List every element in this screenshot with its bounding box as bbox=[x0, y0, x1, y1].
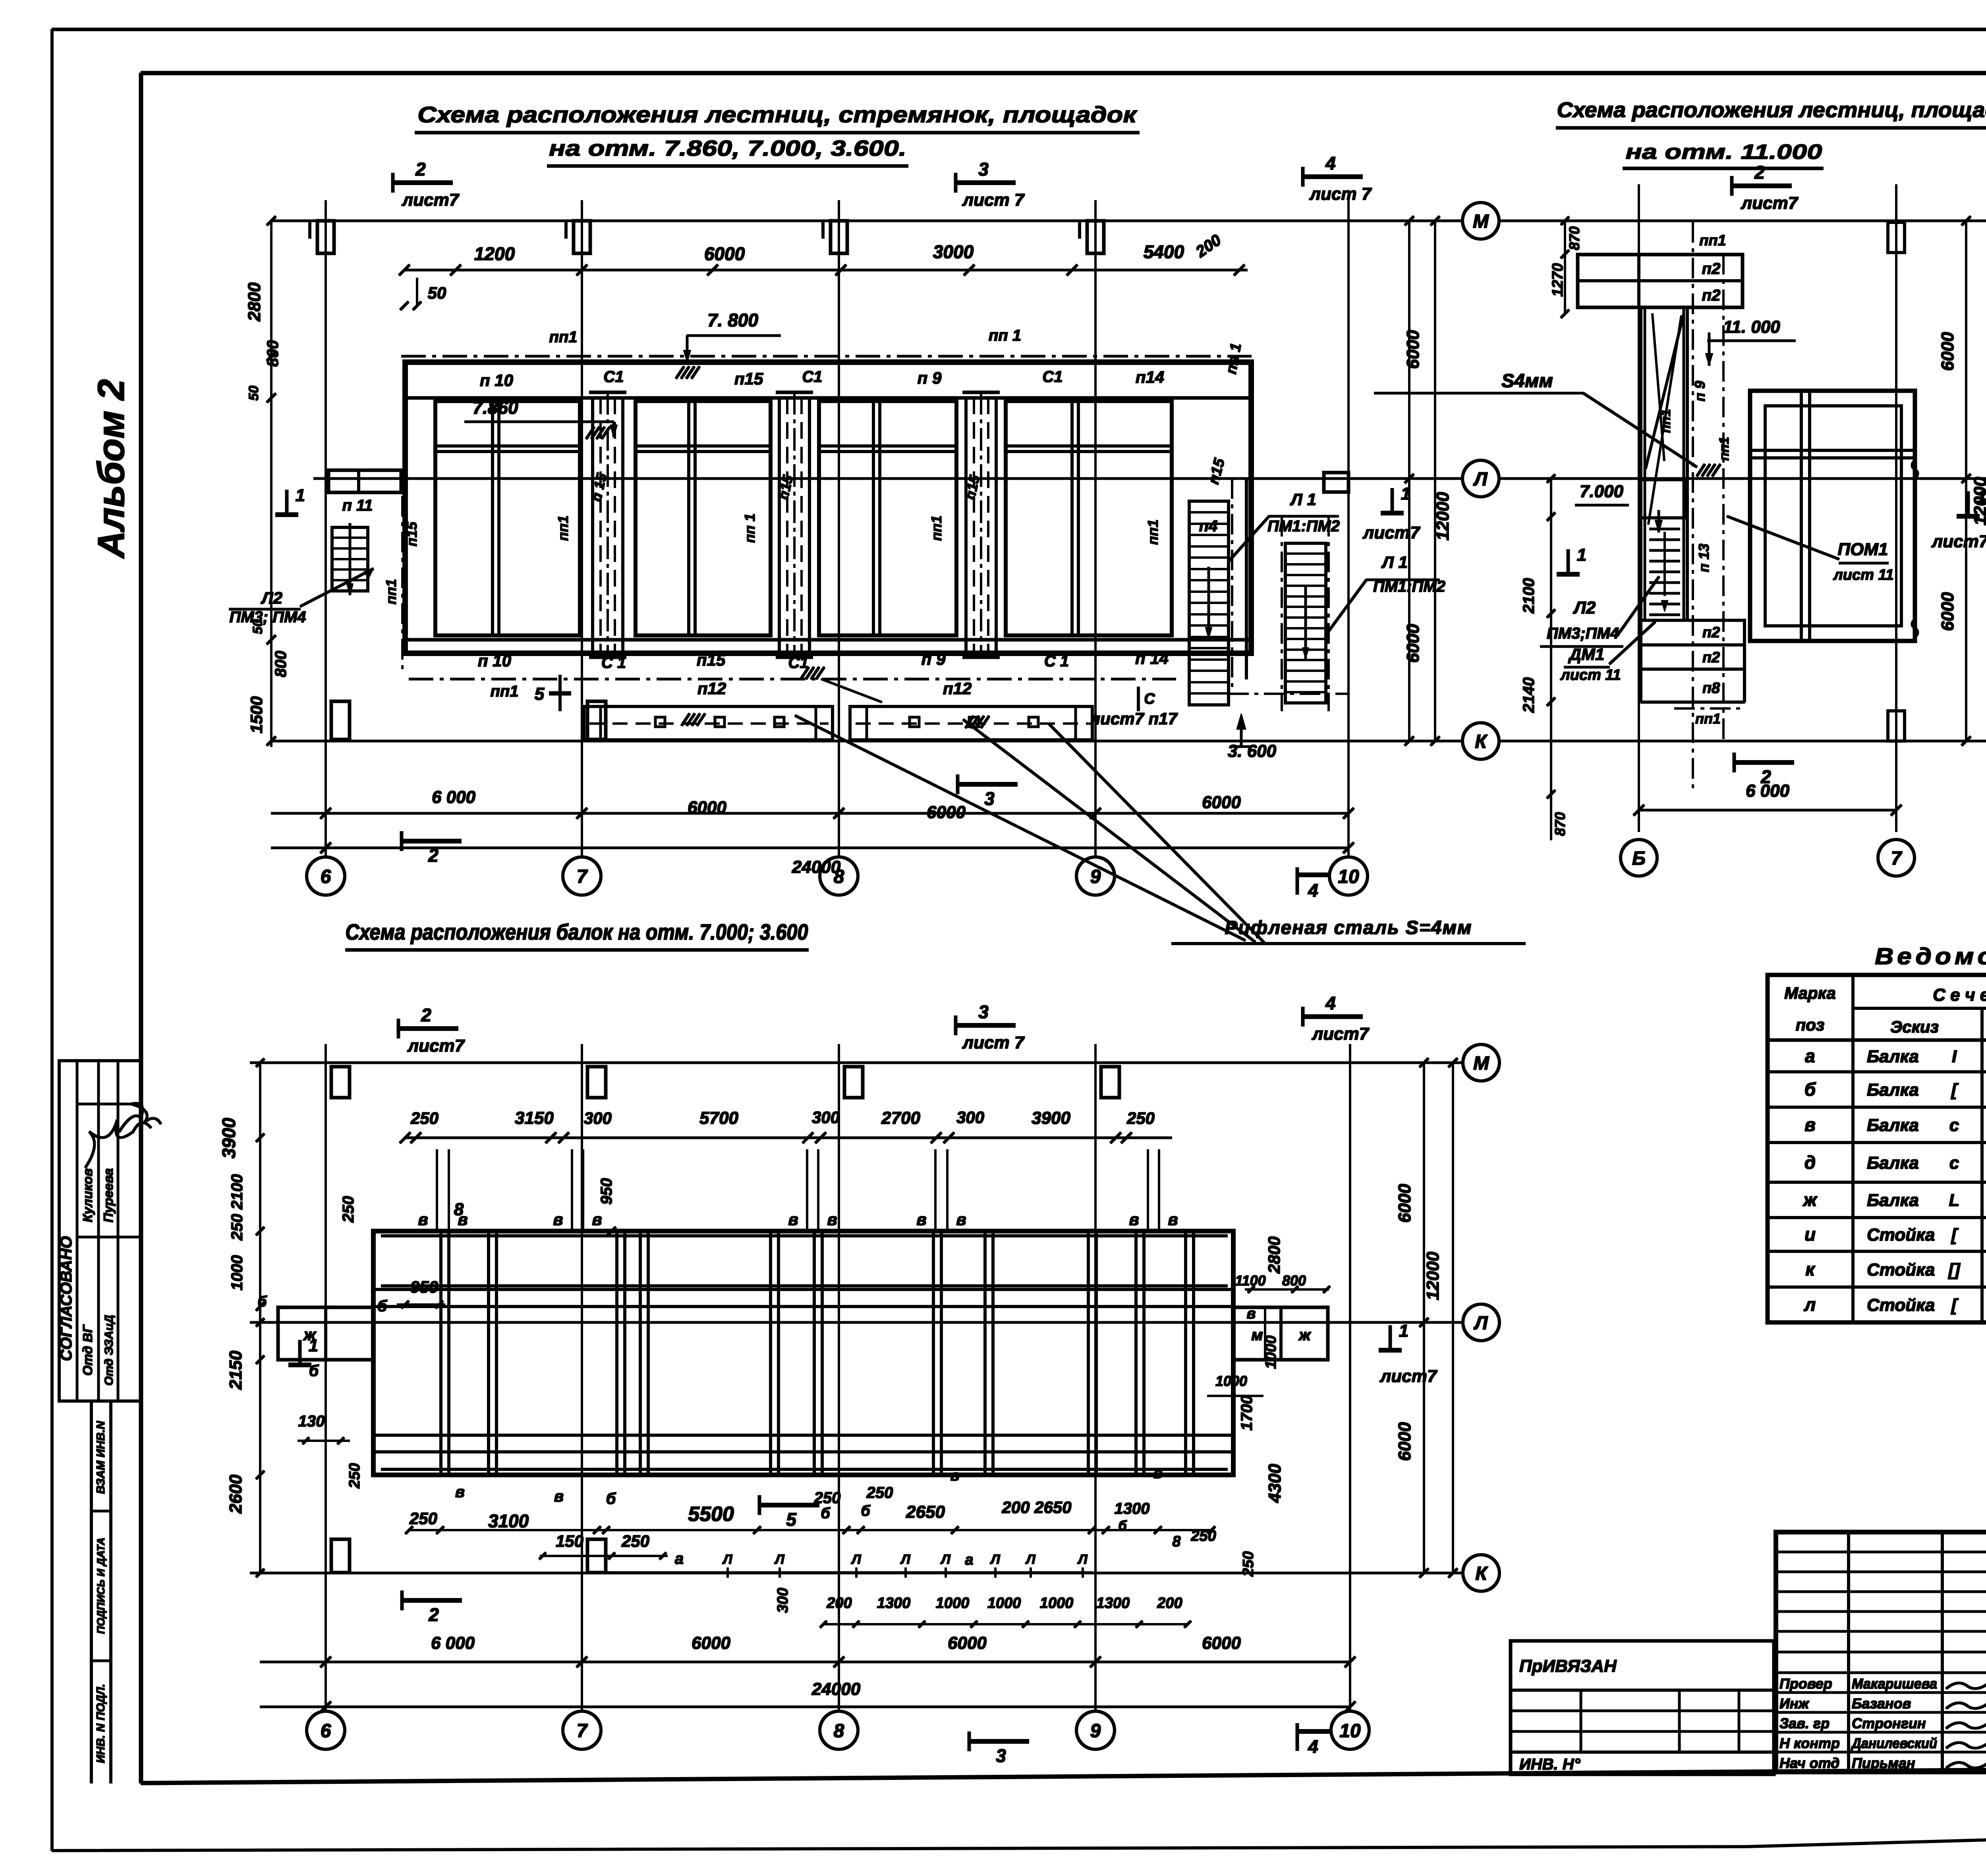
shaft ladder rungs bbox=[1650, 528, 1680, 530]
svg-text:3150: 3150 bbox=[515, 1108, 554, 1128]
svg-text:6000: 6000 bbox=[1395, 1422, 1414, 1461]
elements table frame bbox=[1768, 975, 1986, 1322]
svg-text:пп1: пп1 bbox=[928, 515, 945, 541]
svg-text:б: б bbox=[1804, 1079, 1816, 1100]
svg-text:9: 9 bbox=[1090, 866, 1101, 887]
section mark 4 bbox=[1302, 167, 1304, 186]
svg-text:7: 7 bbox=[1891, 848, 1903, 869]
section mark 2 bbox=[392, 173, 394, 192]
approval stamp box bbox=[59, 1061, 141, 1401]
section mark 4 bbox=[1296, 868, 1299, 894]
svg-text:б: б bbox=[606, 1490, 616, 1507]
svg-text:С 1: С 1 bbox=[1044, 652, 1069, 670]
svg-text:6000: 6000 bbox=[704, 243, 745, 264]
scheme 4 left dims bbox=[259, 1063, 261, 1573]
scheme 2 top stair boxes bbox=[1578, 255, 1743, 307]
svg-text:в: в bbox=[916, 1210, 926, 1229]
scheme 4 top dim chain bbox=[405, 1137, 1172, 1139]
svg-text:1300: 1300 bbox=[1096, 1595, 1130, 1612]
svg-text:ИНВ. Н°: ИНВ. Н° bbox=[1519, 1756, 1581, 1773]
svg-text:250: 250 bbox=[340, 1196, 357, 1223]
svg-text:Макаришева: Макаришева bbox=[1852, 1675, 1937, 1692]
grid column lines scheme 1 bbox=[325, 201, 326, 857]
svg-text:п2: п2 bbox=[1702, 287, 1721, 304]
svg-text:3. 600: 3. 600 bbox=[1228, 741, 1277, 761]
svg-text:Л: Л bbox=[850, 1552, 861, 1567]
svg-text:в: в bbox=[1129, 1210, 1139, 1229]
svg-text:а: а bbox=[965, 1552, 973, 1568]
svg-text:2: 2 bbox=[421, 1005, 431, 1025]
svg-text:Л: Л bbox=[774, 1552, 784, 1567]
svg-text:250: 250 bbox=[1126, 1109, 1155, 1127]
paper outer border bottom bbox=[52, 1824, 1986, 1851]
svg-text:в: в bbox=[1168, 1210, 1178, 1229]
svg-text:лист 7: лист 7 bbox=[962, 1033, 1025, 1052]
svg-text:150: 150 bbox=[556, 1532, 583, 1550]
svg-text:6000: 6000 bbox=[1202, 1633, 1241, 1653]
svg-text:S4мм: S4мм bbox=[1501, 371, 1553, 392]
ladder P4 bbox=[1189, 501, 1229, 705]
svg-text:250: 250 bbox=[621, 1532, 649, 1550]
svg-text:Балка: Балка bbox=[1867, 1047, 1919, 1066]
platform box at L axis bbox=[1640, 480, 1686, 518]
svg-text:С1: С1 bbox=[1042, 368, 1063, 386]
svg-text:6 000: 6 000 bbox=[431, 1633, 475, 1653]
svg-text:4: 4 bbox=[1308, 880, 1318, 901]
svg-text:4: 4 bbox=[1325, 993, 1336, 1013]
svg-text:Стронгин: Стронгин bbox=[1852, 1715, 1926, 1731]
svg-text:б: б bbox=[821, 1505, 831, 1522]
svg-text:12000: 12000 bbox=[1423, 1251, 1443, 1300]
col10 column mark at A axis bbox=[1324, 473, 1348, 492]
svg-text:п2: п2 bbox=[1702, 624, 1720, 641]
section mark 3 bbox=[954, 173, 957, 192]
svg-text:ж: ж bbox=[1802, 1189, 1818, 1210]
section mark 1 bbox=[1389, 1326, 1392, 1351]
svg-text:а: а bbox=[675, 1550, 684, 1567]
svg-text:Л: Л bbox=[900, 1552, 910, 1567]
svg-text:Б: Б bbox=[1632, 848, 1646, 869]
section mark 5 bbox=[758, 1496, 761, 1515]
svg-text:ПОДПИСЬ И ДАТА: ПОДПИСЬ И ДАТА bbox=[95, 1538, 107, 1634]
hatch with leader on bottom wall bbox=[801, 667, 824, 679]
svg-text:Куликов: Куликов bbox=[80, 1168, 95, 1222]
svg-text:6000: 6000 bbox=[927, 803, 966, 822]
column marks on axis M bbox=[317, 221, 334, 253]
bottom dim line 24000 bbox=[271, 847, 1348, 849]
svg-text:Л: Л bbox=[1077, 1552, 1088, 1567]
dashed vertical strips (ladder channels) bbox=[591, 398, 594, 651]
svg-text:4300: 4300 bbox=[1265, 1464, 1285, 1503]
section mark 4 bbox=[1302, 1007, 1304, 1026]
svg-text:в: в bbox=[827, 1210, 837, 1229]
svg-text:10: 10 bbox=[1339, 1720, 1361, 1741]
svg-text:Базанов: Базанов bbox=[1852, 1695, 1911, 1712]
svg-text:Пирьман: Пирьман bbox=[1852, 1755, 1915, 1771]
svg-text:ДМ1: ДМ1 bbox=[1568, 645, 1605, 664]
svg-text:8: 8 bbox=[1172, 1533, 1181, 1550]
svg-text:11. 000: 11. 000 bbox=[1723, 317, 1780, 337]
svg-text:130: 130 bbox=[298, 1413, 325, 1430]
svg-text:в: в bbox=[554, 1488, 564, 1505]
svg-text:СОГЛАСОВАНО: СОГЛАСОВАНО bbox=[58, 1236, 75, 1361]
platform strip п12 right bbox=[850, 706, 1092, 740]
scheme 4 column marks M axis bbox=[331, 1067, 350, 1098]
axis A line bbox=[314, 478, 1462, 480]
svg-text:L: L bbox=[1949, 1191, 1960, 1210]
section mark 2 bbox=[401, 1591, 404, 1610]
svg-text:Эскиз: Эскиз bbox=[1890, 1017, 1939, 1036]
break squiggle bbox=[1912, 461, 1918, 478]
svg-text:п 10: п 10 bbox=[478, 651, 511, 670]
scheme 4 beam grid bbox=[373, 1231, 1233, 1475]
svg-text:лист 11: лист 11 bbox=[1833, 567, 1894, 583]
scheme 2 bottom dims bbox=[1639, 809, 1896, 811]
svg-text:пп1: пп1 bbox=[383, 579, 399, 604]
svg-text:8: 8 bbox=[454, 1200, 464, 1219]
svg-text:800: 800 bbox=[1282, 1272, 1306, 1289]
scheme 2 bottom boxes bbox=[1641, 620, 1745, 645]
svg-text:Н контр: Н контр bbox=[1779, 1735, 1840, 1751]
scheme 2 grid columns bbox=[1638, 185, 1640, 832]
svg-text:ВЗАМ ИНВ.N: ВЗАМ ИНВ.N bbox=[95, 1421, 107, 1494]
svg-text:1000: 1000 bbox=[987, 1595, 1021, 1612]
svg-text:200 2650: 200 2650 bbox=[1001, 1498, 1071, 1517]
svg-text:1: 1 bbox=[1399, 1321, 1408, 1341]
svg-text:в: в bbox=[1153, 1465, 1163, 1482]
svg-text:2150: 2150 bbox=[226, 1351, 245, 1390]
left dimension line scheme 1 bbox=[270, 221, 272, 747]
svg-text:Ведомость элементов: Ведомость элементов bbox=[1875, 944, 1986, 969]
svg-text:950: 950 bbox=[598, 1178, 615, 1205]
svg-text:6: 6 bbox=[321, 1720, 331, 1741]
svg-text:200: 200 bbox=[1157, 1595, 1182, 1612]
section mark 3 bbox=[968, 1732, 971, 1751]
svg-text:д: д bbox=[1804, 1152, 1816, 1173]
svg-text:п4: п4 bbox=[1199, 517, 1218, 535]
scheme 4 right protrusion bbox=[1233, 1307, 1328, 1360]
svg-text:1: 1 bbox=[296, 486, 305, 505]
svg-text:б: б bbox=[861, 1503, 871, 1519]
svg-text:[]: [] bbox=[1947, 1260, 1961, 1280]
svg-text:п15: п15 bbox=[734, 369, 763, 388]
chain 2 line bbox=[540, 1555, 667, 1557]
margin stamp strip bbox=[90, 1401, 93, 1783]
signature squiggles title block bbox=[1946, 1681, 1986, 1689]
svg-text:Л: Л bbox=[1474, 1312, 1488, 1334]
svg-text:2140: 2140 bbox=[1520, 677, 1538, 713]
svg-text:6000: 6000 bbox=[948, 1633, 987, 1653]
svg-text:С е ч е н и е: С е ч е н и е bbox=[1933, 985, 1986, 1005]
dash-dot verticals scheme 2 bbox=[1692, 222, 1694, 790]
svg-text:5400: 5400 bbox=[1144, 241, 1184, 262]
svg-text:лист7: лист7 bbox=[1931, 532, 1986, 551]
svg-text:6: 6 bbox=[321, 866, 331, 887]
svg-text:п 9: п 9 bbox=[918, 369, 942, 387]
svg-text:1200: 1200 bbox=[474, 243, 515, 264]
svg-text:6000: 6000 bbox=[1403, 624, 1423, 663]
svg-text:6 000: 6 000 bbox=[432, 787, 476, 807]
section mark 1 bbox=[1967, 492, 1970, 517]
svg-text:870: 870 bbox=[1552, 812, 1568, 836]
scheme 2 window block bbox=[1750, 391, 1915, 641]
svg-text:и: и bbox=[1804, 1224, 1816, 1245]
svg-text:ПМ3;ПМ4: ПМ3;ПМ4 bbox=[1547, 625, 1619, 642]
section mark 4 scheme 4 bbox=[1296, 1724, 1299, 1751]
svg-text:л: л bbox=[1804, 1294, 1816, 1315]
scheme 2 axes bbox=[1499, 220, 1986, 222]
scheme 4 right dims vertical bbox=[1423, 1063, 1425, 1573]
svg-text:пп 1: пп 1 bbox=[989, 327, 1021, 344]
svg-text:250: 250 bbox=[409, 1509, 437, 1528]
svg-text:Альбом 2: Альбом 2 bbox=[90, 379, 132, 559]
svg-text:4: 4 bbox=[1308, 1736, 1318, 1757]
svg-text:2800: 2800 bbox=[245, 282, 264, 322]
svg-text:М: М bbox=[1473, 1053, 1489, 1074]
svg-text:ПрИВЯЗАН: ПрИВЯЗАН bbox=[1519, 1656, 1617, 1676]
grid circles 6-10 bbox=[307, 857, 345, 895]
svg-text:лист 7: лист 7 bbox=[1309, 184, 1372, 204]
svg-text:в: в bbox=[455, 1483, 465, 1501]
svg-text:24000: 24000 bbox=[811, 1679, 861, 1699]
scheme 2 right dims bbox=[1965, 221, 1967, 741]
column marks near axis K bbox=[331, 701, 350, 739]
svg-text:на отм. 11.000: на отм. 11.000 bbox=[1626, 141, 1822, 164]
svg-text:2700: 2700 bbox=[881, 1108, 920, 1128]
svg-text:800: 800 bbox=[272, 651, 290, 677]
svg-text:в: в bbox=[788, 1210, 798, 1229]
svg-text:пп1: пп1 bbox=[549, 328, 577, 346]
scheme 4 grid columns bbox=[325, 1044, 326, 1711]
svg-text:1000: 1000 bbox=[1040, 1595, 1074, 1612]
title block frame bbox=[1776, 1532, 1986, 1772]
svg-text:в: в bbox=[956, 1210, 966, 1229]
svg-text:1: 1 bbox=[1577, 545, 1586, 565]
scheme 4 dim 6000s bbox=[260, 1661, 1350, 1663]
svg-text:1500: 1500 bbox=[247, 696, 266, 733]
svg-text:Данилевский: Данилевский bbox=[1851, 1735, 1937, 1751]
svg-text:5700: 5700 bbox=[699, 1108, 738, 1128]
svg-text:лист 7: лист 7 bbox=[962, 190, 1025, 210]
svg-text:12000: 12000 bbox=[1433, 492, 1453, 540]
svg-text:С1: С1 bbox=[788, 654, 808, 672]
building outline scheme 1 bbox=[405, 362, 1251, 653]
svg-text:Схема расположения лестниц, ст: Схема расположения лестниц, стремянок, п… bbox=[417, 102, 1138, 127]
svg-text:в: в bbox=[418, 1210, 428, 1229]
svg-text:1700: 1700 bbox=[1238, 1395, 1256, 1431]
building top dash-dot line pp1 bbox=[402, 355, 1251, 357]
section mark 2 bbox=[1731, 176, 1733, 195]
svg-text:5500: 5500 bbox=[688, 1503, 734, 1526]
svg-text:7.000: 7.000 bbox=[1580, 482, 1624, 501]
svg-text:200: 200 bbox=[826, 1595, 852, 1612]
section mark 2 bbox=[397, 1019, 400, 1038]
left p11 box bbox=[328, 470, 401, 492]
svg-text:Л 1: Л 1 bbox=[1290, 490, 1316, 509]
shaft diagonal bbox=[1646, 314, 1684, 469]
svg-text:п2: п2 bbox=[1702, 260, 1721, 278]
svg-text:Стойка: Стойка bbox=[1867, 1225, 1935, 1245]
svg-text:6000: 6000 bbox=[692, 1633, 730, 1653]
svg-text:к: к bbox=[1805, 1259, 1816, 1280]
svg-text:ИНВ. N ПОДЛ.: ИНВ. N ПОДЛ. bbox=[95, 1684, 107, 1763]
svg-text:на отм. 7.860, 7.000, 3.600.: на отм. 7.860, 7.000, 3.600. bbox=[549, 136, 906, 160]
svg-text:п 14: п 14 bbox=[1135, 649, 1169, 668]
ladder L2 bbox=[332, 527, 368, 591]
svg-text:3: 3 bbox=[978, 1002, 989, 1022]
svg-text:С: С bbox=[1144, 691, 1155, 707]
svg-text:250: 250 bbox=[866, 1484, 893, 1502]
scheme 4 column marks K axis bbox=[331, 1539, 350, 1573]
svg-text:ПМ1:ПМ2: ПМ1:ПМ2 bbox=[1267, 517, 1340, 535]
svg-text:6000: 6000 bbox=[1403, 330, 1423, 369]
svg-text:п14: п14 bbox=[1136, 368, 1164, 386]
svg-text:250: 250 bbox=[410, 1109, 439, 1127]
scheme 4 dim 24000 bbox=[260, 1706, 1350, 1708]
svg-text:250 2100: 250 2100 bbox=[228, 1174, 246, 1241]
svg-text:3000: 3000 bbox=[933, 241, 974, 262]
table column lines bbox=[1852, 975, 1854, 1322]
svg-text:в: в bbox=[950, 1467, 960, 1484]
svg-text:300: 300 bbox=[956, 1108, 984, 1127]
svg-text:3: 3 bbox=[978, 159, 989, 179]
svg-text:лист7: лист7 bbox=[1379, 1366, 1438, 1386]
svg-text:300: 300 bbox=[775, 1588, 791, 1613]
svg-text:с: с bbox=[1949, 1153, 1959, 1173]
svg-text:Балка: Балка bbox=[1867, 1080, 1919, 1100]
svg-text:б: б bbox=[377, 1297, 388, 1315]
svg-text:Рифленая сталь S=4мм: Рифленая сталь S=4мм bbox=[1225, 917, 1472, 938]
svg-text:Л2: Л2 bbox=[261, 589, 282, 607]
svg-text:Л: Л bbox=[1025, 1552, 1036, 1567]
svg-text:1: 1 bbox=[309, 1336, 318, 1355]
svg-text:в: в bbox=[1804, 1114, 1816, 1135]
svg-text:п 13: п 13 bbox=[1696, 544, 1712, 572]
svg-text:Балка: Балка bbox=[1867, 1191, 1919, 1210]
svg-text:К: К bbox=[1475, 1563, 1488, 1584]
svg-text:7.860: 7.860 bbox=[472, 397, 518, 418]
svg-text:лист7: лист7 bbox=[402, 190, 460, 210]
svg-text:2: 2 bbox=[415, 159, 426, 179]
svg-text:50: 50 bbox=[428, 284, 446, 302]
svg-text:Л: Л bbox=[940, 1552, 950, 1567]
svg-text:С1: С1 bbox=[603, 368, 624, 386]
svg-text:2: 2 bbox=[428, 845, 439, 866]
signature squiggle 2 bbox=[119, 1103, 161, 1132]
svg-text:6000: 6000 bbox=[1395, 1184, 1414, 1223]
svg-text:2800: 2800 bbox=[1265, 1236, 1283, 1274]
svg-text:п 10: п 10 bbox=[480, 371, 513, 390]
svg-text:250: 250 bbox=[814, 1489, 841, 1507]
svg-text:1300: 1300 bbox=[1115, 1500, 1150, 1517]
svg-text:3900: 3900 bbox=[218, 1117, 239, 1158]
scheme 4 axes bbox=[250, 1062, 1462, 1064]
svg-text:с: с bbox=[1949, 1116, 1959, 1135]
scheme 1 right dim lines bbox=[1408, 221, 1410, 741]
svg-text:б: б bbox=[1118, 1518, 1127, 1533]
svg-text:ПМ3; ПМ4: ПМ3; ПМ4 bbox=[229, 608, 306, 626]
svg-text:С 1: С 1 bbox=[601, 654, 626, 672]
axis M line bbox=[271, 220, 1462, 222]
bottom dim line 6000s bbox=[271, 813, 1348, 814]
axis circles M L K bbox=[1462, 203, 1499, 239]
svg-text:в: в bbox=[592, 1210, 602, 1229]
svg-text:9: 9 bbox=[1090, 1720, 1101, 1741]
svg-text:6000: 6000 bbox=[1938, 592, 1957, 631]
svg-text:а: а bbox=[1805, 1046, 1815, 1066]
svg-text:Балка: Балка bbox=[1867, 1116, 1919, 1135]
svg-text:лист7: лист7 bbox=[1312, 1024, 1370, 1044]
section mark 2 bbox=[1733, 753, 1736, 772]
paper outer border top bbox=[52, 28, 1986, 31]
svg-text:300: 300 bbox=[812, 1108, 840, 1127]
svg-text:870: 870 bbox=[1566, 226, 1582, 250]
svg-text:М: М bbox=[1473, 211, 1489, 232]
svg-text:Схема расположения лестниц, пл: Схема расположения лестниц, площадок bbox=[1557, 98, 1986, 122]
svg-text:250: 250 bbox=[346, 1463, 363, 1488]
svg-text:6000: 6000 bbox=[688, 798, 726, 817]
svg-text:пп1: пп1 bbox=[1145, 519, 1161, 545]
svg-text:800: 800 bbox=[264, 340, 282, 367]
svg-text:2600: 2600 bbox=[226, 1475, 245, 1514]
svg-text:Схема расположения балок на от: Схема расположения балок на отм. 7.000; … bbox=[346, 919, 808, 944]
svg-text:2100: 2100 bbox=[1520, 578, 1538, 614]
svg-text:300: 300 bbox=[584, 1109, 612, 1127]
svg-text:ПОМ1: ПОМ1 bbox=[1838, 540, 1888, 559]
svg-text:пп1: пп1 bbox=[1717, 437, 1732, 461]
svg-text:п15: п15 bbox=[697, 650, 726, 669]
lower dash-dot line bbox=[409, 678, 1176, 680]
section mark 5 bbox=[559, 675, 561, 711]
drawing frame bbox=[141, 71, 1986, 75]
svg-text:п12: п12 bbox=[943, 679, 972, 698]
title block left columns bbox=[1847, 1532, 1850, 1772]
svg-text:К: К bbox=[1475, 731, 1488, 752]
svg-text:Отд ЭЗАиД: Отд ЭЗАиД bbox=[102, 1315, 116, 1386]
scheme 2 left dims bbox=[1564, 221, 1566, 314]
beam verticals from chain bbox=[436, 1150, 438, 1231]
privyazan box bbox=[1511, 1641, 1774, 1774]
svg-text:Пуреева: Пуреева bbox=[101, 1168, 116, 1223]
svg-text:лист 11: лист 11 bbox=[1560, 667, 1621, 683]
svg-text:2: 2 bbox=[1754, 162, 1765, 183]
scheme 2 stair shaft bbox=[1640, 307, 1642, 620]
scheme 2 column marks bbox=[1888, 222, 1905, 253]
wall dash-dot near left stair bbox=[402, 496, 403, 675]
svg-text:Нач отд: Нач отд bbox=[1779, 1755, 1839, 1771]
section mark 1 bbox=[1391, 488, 1394, 514]
svg-text:п 9: п 9 bbox=[1692, 381, 1708, 401]
svg-text:п 9: п 9 bbox=[922, 650, 946, 668]
scheme 4 lower dim chain 3 bbox=[823, 1623, 1188, 1625]
section mark 3 bbox=[954, 1016, 957, 1035]
svg-text:Балка: Балка bbox=[1867, 1153, 1919, 1173]
svg-text:3900: 3900 bbox=[1032, 1108, 1070, 1128]
table row lines bbox=[1768, 1071, 1986, 1073]
svg-text:1100: 1100 bbox=[1235, 1272, 1265, 1289]
svg-text:2: 2 bbox=[428, 1604, 439, 1625]
svg-text:п 11: п 11 bbox=[342, 497, 373, 514]
svg-text:Л: Л bbox=[722, 1552, 732, 1567]
svg-text:3: 3 bbox=[996, 1745, 1006, 1766]
svg-text:м: м bbox=[1251, 1326, 1263, 1344]
svg-text:50: 50 bbox=[246, 386, 261, 401]
svg-text:250: 250 bbox=[1240, 1551, 1257, 1577]
window panels scheme 1 bbox=[435, 401, 580, 635]
svg-text:7: 7 bbox=[577, 1720, 588, 1741]
svg-text:в: в bbox=[1247, 1305, 1256, 1322]
svg-text:Л2: Л2 bbox=[1573, 598, 1596, 618]
